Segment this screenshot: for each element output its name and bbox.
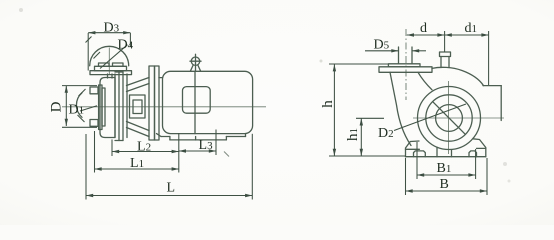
- svg-text:L: L: [167, 181, 176, 196]
- svg-text:D3: D3: [104, 21, 120, 36]
- svg-text:B1: B1: [437, 161, 452, 176]
- svg-text:B: B: [440, 177, 449, 192]
- svg-text:d1: d1: [465, 21, 478, 36]
- svg-text:L1: L1: [130, 156, 144, 171]
- svg-text:D: D: [49, 101, 65, 112]
- svg-text:d: d: [420, 21, 427, 36]
- svg-text:D1: D1: [69, 103, 85, 118]
- svg-text:h: h: [320, 100, 336, 108]
- svg-text:D4: D4: [118, 38, 134, 53]
- svg-text:h1: h1: [345, 128, 361, 141]
- svg-text:L3: L3: [199, 138, 214, 153]
- svg-text:D5: D5: [374, 38, 390, 53]
- svg-text:D2: D2: [378, 126, 394, 141]
- svg-text:L2: L2: [137, 140, 151, 155]
